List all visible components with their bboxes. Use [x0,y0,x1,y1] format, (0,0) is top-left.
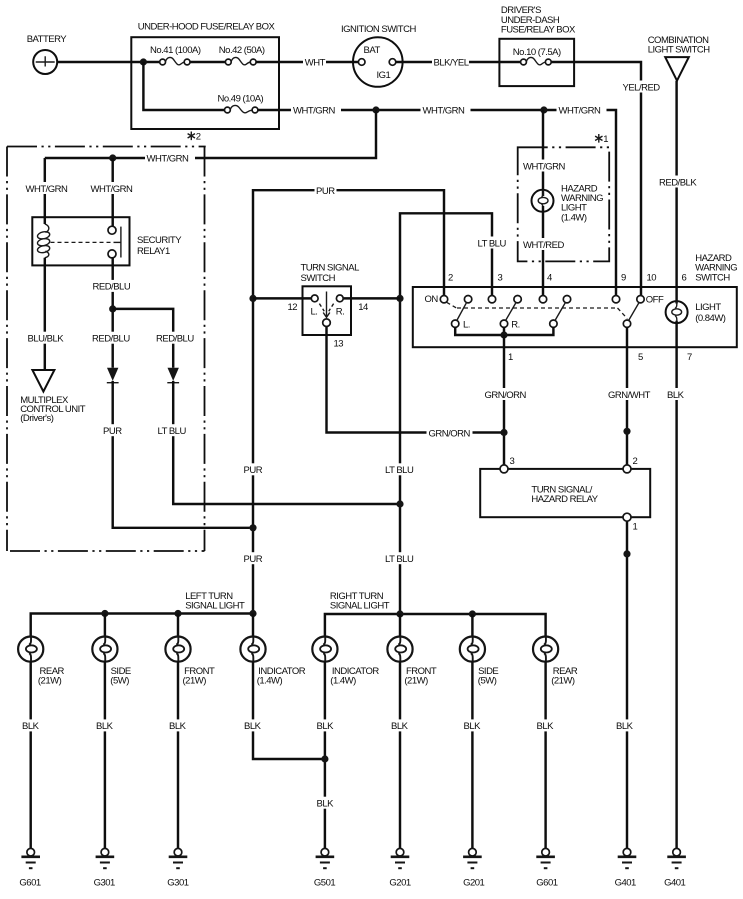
lamp right indicator (1.4W) [312,637,379,687]
turn signal switch [301,262,360,335]
wire from battery junction down to fuse 49 row [143,62,224,110]
driver's under-dash fuse/relay box [499,5,576,86]
label LT BLU pin 3 [476,237,509,250]
svg-text:13: 13 [334,339,344,350]
lamp left rear (21W) [18,637,64,687]
svg-text:BLK: BLK [96,721,114,732]
label BLK left indicator [243,719,266,732]
label WHT [303,56,326,69]
ground G601 right rear [536,848,557,888]
diode D2 [167,368,179,383]
svg-text:12: 12 [288,302,298,313]
svg-text:RED/BLU: RED/BLU [156,334,194,345]
svg-text:ON: ON [425,294,439,305]
svg-text:TURN SIGNAL: TURN SIGNAL [301,262,360,273]
wire stub bus to right side lamp [471,614,473,637]
wire BLK left side lamp to ground [104,661,106,848]
svg-text:LT BLU: LT BLU [478,238,507,249]
ground G201 right side [463,848,484,888]
node junction shared indicator ground [321,755,328,762]
label BLK below indicator junction [315,797,338,810]
wire WHT/GRN down to security relay coil [44,158,46,224]
svg-text:L.: L. [463,319,470,330]
label BLK right front [390,719,413,732]
svg-text:G501: G501 [314,878,335,889]
ground G301 left front [167,848,188,888]
label WHT/RED [522,238,567,251]
wire BLK right side lamp to ground [471,661,473,848]
label WHT/GRN on y110 line (2) [421,104,471,117]
hazard warning switch box [413,253,737,347]
svg-text:PUR: PUR [316,186,335,197]
ignition switch [341,24,416,87]
hazard warning light bulb (1.4W) [532,183,604,223]
switch blade R [506,302,516,320]
svg-text:No.42 (50A): No.42 (50A) [219,45,265,56]
svg-text:RELAY1: RELAY1 [137,246,170,257]
switch blade OFF [629,303,639,321]
terminal pin 14 (R) [336,295,343,302]
node junction WHT/GRN to relay switch side [109,154,116,161]
svg-text:WHT/GRN: WHT/GRN [147,153,190,164]
label GRN/ORN on horizontal [427,427,473,440]
ground G401 relay [615,848,637,888]
svg-text:R.: R. [511,319,520,330]
svg-text:BLK: BLK [391,721,409,732]
wire from pin 14 [343,297,400,299]
svg-text:(21W): (21W) [551,676,575,687]
label LEFT TURN SIGNAL LIGHT [185,591,245,612]
svg-text:No.49 (10A): No.49 (10A) [218,94,264,105]
svg-text:(0.84W): (0.84W) [695,313,726,324]
wire WHT/GRN fuse 49 to junction and across top [258,110,616,296]
ground G301 left side [94,848,115,888]
dashed mechanical link hazard switch [447,302,628,318]
svg-text:7: 7 [687,352,692,363]
svg-text:BLK: BLK [464,721,482,732]
combination light switch [648,35,711,81]
lamp right side (5W) [460,637,499,687]
svg-text:RED/BLU: RED/BLU [93,282,131,293]
switch blade L [457,302,467,320]
label WHT/GRN right coil wire [89,182,139,195]
wire RED/BLK combination light switch to hazard switch pin 6 [675,81,677,304]
label RED/BLU below relay [91,280,133,293]
under-hood fuse/relay box [131,22,279,143]
svg-text:4: 4 [547,273,552,284]
svg-text:1: 1 [633,522,638,533]
lamp left indicator (1.4W) [240,637,305,687]
wire WHT/GRN into hazard warning light [542,110,544,196]
svg-text:(1.4W): (1.4W) [330,676,356,687]
svg-text:5: 5 [638,352,643,363]
wire between fuse 41 and 42 [190,61,225,63]
svg-text:BLK: BLK [317,721,335,732]
svg-text:(1.4W): (1.4W) [257,676,283,687]
wire BLK left indicator to shared ground wire [253,661,325,759]
node junction PUR with diode branch [249,524,256,531]
node junction RED/BLU branch [109,305,116,312]
node junction left bus indicator [249,610,256,617]
label GRN/ORN pin 1 [483,388,529,401]
label BLK/YEL [432,56,469,69]
svg-text:1: 1 [508,352,513,363]
label BLK right side [462,719,485,732]
svg-text:G401: G401 [664,878,685,889]
svg-text:WHT/GRN: WHT/GRN [293,105,336,116]
hazard switch top terminals [440,296,644,303]
svg-text:LT BLU: LT BLU [385,465,414,476]
label BLK left rear [21,719,44,732]
svg-text:RED/BLU: RED/BLU [92,334,130,345]
label WHT/GRN on y110 line (1) [291,104,341,117]
label PUR lower [242,552,264,565]
svg-text:WHT/GRN: WHT/GRN [523,161,566,172]
node junction WHT/GRN to security relay branch [372,106,379,113]
wire LT BLU run to hazard switch pin 3 [400,213,492,614]
lamp right rear (21W) [533,637,578,687]
wire WHT battery to under-hood fuse box [57,61,160,63]
wire WHT fuse 42 to ignition switch [256,61,358,63]
security relay SECURITY RELAY1 [32,217,182,265]
wire PUR horizontal run to hazard switch pin 2 [253,190,444,613]
svg-text:G301: G301 [167,878,188,889]
svg-text:BLK: BLK [22,721,40,732]
svg-text:(21W): (21W) [183,676,207,687]
wire LT BLU from diode D2 to main LT BLU wire [173,381,400,504]
node junction right bus front lamp [396,610,403,617]
relay coil [37,224,51,258]
fuse No.49 (10A) [218,94,264,113]
ground G501 indicators [314,848,335,888]
ground G601 left rear [19,848,40,888]
node junction left bus side lamp [101,610,108,617]
svg-text:RED/BLK: RED/BLK [659,177,697,188]
label LT BLU lower [384,552,417,565]
svg-text:10: 10 [647,273,657,284]
label BLK left side [95,719,118,732]
wire BLK pin 7 down to ground [675,321,677,849]
label WHT/GRN left coil wire [24,182,74,195]
svg-text:FUSE/RELAY BOX: FUSE/RELAY BOX [501,25,576,36]
label PUR upper [242,463,264,476]
svg-text:YEL/RED: YEL/RED [623,82,661,93]
wire BLK right rear lamp to ground [544,661,546,848]
svg-text:3: 3 [510,456,515,467]
label RED/BLU left diode wire [91,332,133,345]
label PUR on horizontal run [315,184,337,197]
wire BLK relay pin 1 down to ground [626,521,628,848]
dash-dot box *1 hazard warning light [518,134,610,261]
svg-text:G201: G201 [389,878,410,889]
node junction LT BLU with diode branch [396,500,403,507]
wire BLK left front lamp to ground [177,661,179,848]
node connector dot GRN/WHT [623,428,630,435]
wire RED/BLU branch right to second diode [113,309,174,368]
label BLK right indicator [315,719,338,732]
svg-text:6: 6 [682,273,687,284]
svg-text:PUR: PUR [244,554,263,565]
turn signal lever arrow [311,292,345,318]
svg-text:LIGHT: LIGHT [695,302,721,313]
svg-text:L.: L. [311,307,318,318]
svg-text:SIGNAL LIGHT: SIGNAL LIGHT [185,600,245,611]
svg-text:OFF: OFF [646,295,664,306]
lamp right front (21W) [387,637,437,687]
svg-text:G401: G401 [615,878,636,889]
diode D1 [107,368,119,383]
hazard switch lower terminals [452,320,631,327]
light bulb LIGHT (0.84W) in hazard switch [666,301,726,324]
fuse No.42 (50A) [219,45,265,65]
lamp left side (5W) [92,637,131,687]
svg-text:WHT/GRN: WHT/GRN [423,105,466,116]
svg-text:SECURITY: SECURITY [137,235,182,246]
node junction LT BLU at turn signal switch pin 14 [396,295,403,302]
wire WHT/GRN down to security relay switch [111,158,113,226]
relay contact [108,226,121,258]
svg-text:No.10 (7.5A): No.10 (7.5A) [513,47,561,58]
svg-text:BATTERY: BATTERY [27,34,68,45]
svg-text:LT BLU: LT BLU [158,426,187,437]
svg-text:(21W): (21W) [38,676,62,687]
svg-text:BLK: BLK [667,390,685,401]
svg-text:HAZARD RELAY: HAZARD RELAY [531,494,598,505]
wire BLK right front lamp to ground [399,661,401,848]
wire BLU/BLK relay coil to multiplex control unit [44,258,46,370]
svg-text:BAT: BAT [364,45,381,56]
svg-text:SWITCH: SWITCH [695,272,730,283]
svg-text:SWITCH: SWITCH [301,273,336,284]
svg-text:(5W): (5W) [478,676,497,687]
svg-text:No.41 (100A): No.41 (100A) [150,45,201,56]
turn signal/hazard relay [480,465,650,521]
fuse No.10 (7.5A) [513,47,561,65]
svg-text:LIGHT SWITCH: LIGHT SWITCH [648,45,711,56]
svg-text:2: 2 [196,132,201,143]
fuse No.41 (100A) [150,45,201,65]
node junction right bus side lamp [469,610,476,617]
node junction GRN/ORN with turn signal feed [500,429,507,436]
svg-text:WHT/GRN: WHT/GRN [91,184,134,195]
wire RED/BLU relay contact down [111,258,113,368]
svg-text:BLK: BLK [169,721,187,732]
svg-text:WHT/GRN: WHT/GRN [559,105,602,116]
svg-text:9: 9 [621,273,626,284]
multiplex control unit connector [20,370,86,424]
svg-text:LT BLU: LT BLU [385,554,414,565]
svg-text:PUR: PUR [103,426,122,437]
wire right turn bus [325,614,546,637]
wire stub bus to left front lamp [177,614,179,638]
wire BLK/YEL ignition to driver's under-dash fuse box [396,61,521,63]
svg-text:UNDER-HOOD FUSE/RELAY BOX: UNDER-HOOD FUSE/RELAY BOX [138,22,276,33]
label RIGHT TURN SIGNAL LIGHT [330,591,390,612]
label YEL/RED [621,81,660,94]
svg-text:(Driver's): (Driver's) [20,413,54,424]
label PUR diode 1 [102,424,124,437]
label LT BLU diode 2 [156,424,189,437]
svg-text:(21W): (21W) [404,676,428,687]
svg-text:1: 1 [603,134,608,145]
wire GRN/ORN turn signal pin 13 to relay [327,327,505,433]
terminal pin 12 (L) [311,295,318,302]
svg-text:BLK: BLK [244,721,262,732]
svg-text:GRN/ORN: GRN/ORN [485,390,527,401]
wire left turn bus [31,614,253,638]
label BLK pin 7 [666,388,689,401]
svg-text:IG1: IG1 [377,70,391,81]
label BLU/BLK [26,332,68,345]
wire PUR from diode D1 to main PUR wire [113,381,250,528]
label WHT/GRN in box *1 [522,160,572,173]
dash-dot box *2 multiplex area [7,147,206,552]
svg-text:G301: G301 [94,878,115,889]
svg-text:WHT: WHT [305,57,326,68]
wire into pin 12 [253,297,311,299]
label WHT/GRN on y158 line [145,152,195,165]
node battery feed junction [140,58,147,65]
svg-text:R.: R. [336,307,345,318]
svg-text:14: 14 [358,302,368,313]
wire YEL/RED fuse 10 to hazard switch pin 10 [551,62,641,296]
label RED/BLU right diode wire [155,332,197,345]
label BLK right rear [535,719,558,732]
node junction WHT/GRN to hazard warning light branch [540,106,547,113]
label BLK relay ground wire [615,719,638,732]
svg-text:3: 3 [498,273,503,284]
svg-text:BLK: BLK [537,721,555,732]
wire BLK left rear lamp to ground [29,661,31,848]
wire WHT/GRN branch down from junction into dash-dot box *2 [45,110,376,158]
label GRN/WHT pin 5 [606,388,652,401]
terminal pin 13 [323,319,331,327]
ground G401 hazard light [664,848,686,888]
svg-text:BLK: BLK [317,799,335,810]
svg-text:2: 2 [448,273,453,284]
svg-text:SIGNAL LIGHT: SIGNAL LIGHT [330,600,390,611]
wire stub bus to right front lamp [399,614,401,637]
node junction left bus front lamp [174,610,181,617]
wire pin 5 OFF blade down [626,327,628,465]
node connector dot below relay pin 1 [623,550,630,557]
label RED/BLK [658,176,698,189]
svg-text:IGNITION SWITCH: IGNITION SWITCH [341,24,416,35]
bus connecting L R third terminals [455,327,553,335]
svg-text:BLK: BLK [616,721,634,732]
lamp left front (21W) [165,637,215,687]
node junction bus to pin 1 [500,331,507,338]
svg-text:(5W): (5W) [110,676,129,687]
svg-text:(1.4W): (1.4W) [561,212,587,223]
wire pin 1 out of box [503,335,505,465]
node junction PUR at turn signal switch pin 12 [249,295,256,302]
svg-text:WHT/RED: WHT/RED [523,240,564,251]
wire stub bus to left side lamp [104,614,106,638]
label LT BLU upper [384,463,417,476]
switch blade third [555,302,566,320]
svg-text:BLK/YEL: BLK/YEL [434,57,469,68]
wire WHT/RED hazard warning light to pin 4 [542,206,544,296]
svg-text:2: 2 [633,456,638,467]
ground G201 right front [389,848,410,888]
svg-text:G601: G601 [19,878,40,889]
svg-text:G601: G601 [536,878,557,889]
svg-text:WHT/GRN: WHT/GRN [26,184,69,195]
svg-text:GRN/ORN: GRN/ORN [429,428,471,439]
svg-text:G201: G201 [463,878,484,889]
wire stub bus to left indicator lamp [252,614,254,638]
svg-text:BLU/BLK: BLU/BLK [28,334,65,345]
label BLK left front [168,719,191,732]
dashed mechanical link coil to contact [51,241,114,243]
battery B1 [27,34,68,74]
svg-text:PUR: PUR [244,465,263,476]
svg-text:GRN/WHT: GRN/WHT [608,390,651,401]
label WHT/GRN on y110 line (3) [557,104,607,117]
wire BLK right indicator to ground [324,661,326,848]
